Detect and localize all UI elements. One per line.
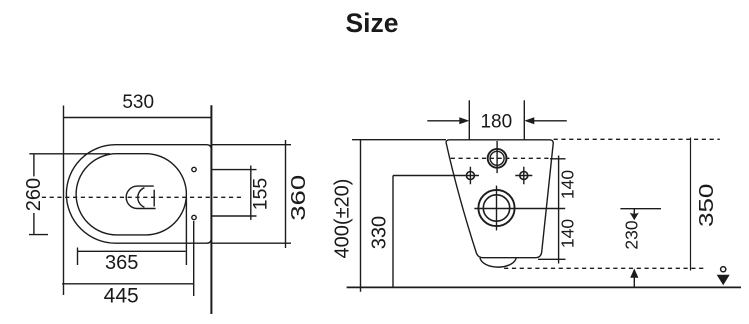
svg-text:530: 530 xyxy=(122,92,154,113)
drain outlet horizontal axis + extension xyxy=(474,208,565,210)
dimension 360 bottom extension xyxy=(211,242,291,244)
bowl inner rim xyxy=(76,154,186,235)
dimension 350 line xyxy=(690,138,692,271)
svg-text:360: 360 xyxy=(288,175,310,221)
svg-text:180: 180 xyxy=(480,112,512,133)
fixing hole left xyxy=(466,172,474,180)
drain outlet circle inner xyxy=(483,195,509,221)
dimension 180 left extension xyxy=(468,100,470,139)
extension line left (530/445) xyxy=(63,106,65,296)
dashed reference line bottom xyxy=(504,267,705,269)
dimension 230 top bar xyxy=(620,208,661,210)
floor baseline (back view) xyxy=(347,286,741,288)
svg-text:140: 140 xyxy=(558,170,578,199)
svg-text:400(±20): 400(±20) xyxy=(332,179,354,259)
svg-text:260: 260 xyxy=(23,178,45,211)
inlet vertical tick xyxy=(496,141,498,173)
drain outlet vertical axis xyxy=(496,186,498,231)
dimension 140 top tick xyxy=(550,158,566,160)
svg-text:230: 230 xyxy=(622,220,642,249)
inlet circle inner xyxy=(490,151,504,165)
inlet circle outer xyxy=(488,149,507,168)
svg-text:445: 445 xyxy=(104,284,139,307)
drain inner arc xyxy=(138,188,145,208)
top extension line to body xyxy=(352,139,446,141)
dimension 230 up arrow xyxy=(633,272,635,287)
floor marker circle xyxy=(721,267,726,272)
toilet body outline (back view) xyxy=(446,140,553,258)
wall line (top view) xyxy=(210,105,212,314)
centerline (dashed, top view) xyxy=(42,196,243,198)
dimension 180 left arrow xyxy=(427,120,461,122)
fixing hole right xyxy=(520,172,528,180)
dimension 445 right extension xyxy=(193,221,195,296)
dimension 230 down arrow xyxy=(633,209,635,215)
dimension 400 line xyxy=(360,140,362,292)
drain outer outline xyxy=(126,186,155,208)
svg-text:330: 330 xyxy=(369,216,391,249)
drain outlet circle outer xyxy=(478,190,514,226)
svg-text:155: 155 xyxy=(250,178,272,211)
dimension 180 right arrow xyxy=(532,120,567,122)
svg-text:350: 350 xyxy=(695,184,717,227)
dimension 365 line xyxy=(78,250,186,252)
dimension 365 left tick xyxy=(77,248,79,266)
dimension 530 line xyxy=(64,117,212,119)
mounting hole upper (top view) xyxy=(192,167,196,171)
dimension 330 line xyxy=(392,176,394,288)
dimension 260 line upper segment xyxy=(33,154,35,177)
body centerline (dashed, back view) xyxy=(451,157,552,159)
svg-text:140: 140 xyxy=(558,219,578,248)
dimension 260 bottom extension xyxy=(29,234,48,236)
floor marker triangle xyxy=(717,275,730,286)
dimension 155 top extension xyxy=(211,169,256,171)
dimension 260 line lower segment xyxy=(33,213,35,235)
dimension 365 right extension xyxy=(185,198,187,266)
dimension 140 line xyxy=(558,156,560,264)
dimension 155 bottom extension xyxy=(211,215,256,217)
drain pipe arc below body xyxy=(480,258,516,267)
dimension 360 top extension xyxy=(211,144,291,146)
bowl outer outline xyxy=(66,145,211,244)
svg-text:365: 365 xyxy=(105,252,138,274)
dimension 180 right extension xyxy=(523,100,525,139)
drain flat face line xyxy=(153,190,155,207)
dimension 330 extension to hole xyxy=(393,175,466,177)
fixing hole left cross xyxy=(466,167,479,185)
fixing hole right cross xyxy=(515,167,532,185)
dimension 155 line xyxy=(250,166,252,220)
dimension 140 bottom tick xyxy=(538,258,566,260)
mounting hole lower (top view) xyxy=(192,215,196,219)
dimension 445 line xyxy=(62,283,194,285)
dashed reference line top xyxy=(554,138,720,140)
svg-text:Size: Size xyxy=(345,8,398,38)
dimension 360 line xyxy=(285,140,287,248)
dimension 260 top extension xyxy=(29,153,110,155)
